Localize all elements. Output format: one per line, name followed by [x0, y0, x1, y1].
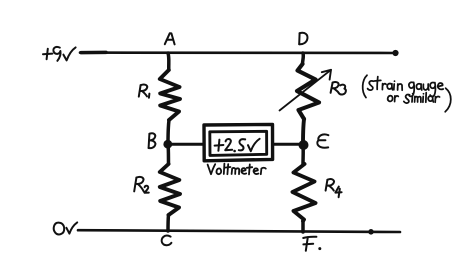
label R4 — [326, 179, 342, 197]
node A label — [165, 33, 175, 44]
node E label — [317, 134, 328, 147]
wire bottom rail 0V — [78, 230, 400, 232]
wire B to voltmeter — [172, 143, 204, 146]
junction dot bottom rail — [368, 229, 374, 235]
label 0v — [54, 222, 77, 234]
label R2 — [134, 177, 149, 193]
node B dot — [163, 140, 172, 149]
node F label — [303, 237, 316, 251]
wire A to R1 — [166, 53, 170, 70]
voltmeter reading +2.5V — [215, 139, 260, 153]
wire top rail +9V — [80, 51, 396, 54]
label R3 — [331, 82, 346, 95]
resistor R2 — [160, 164, 180, 215]
wire voltmeter to E — [273, 143, 300, 146]
node C label — [162, 236, 172, 246]
arrow through R3 (variable) — [280, 70, 332, 111]
label R1 — [139, 84, 150, 97]
label Voltmeter — [208, 164, 266, 175]
node B label — [149, 133, 156, 148]
wire E to R4 — [301, 144, 305, 164]
voltmeter U1 inner box — [210, 131, 267, 155]
node D label — [299, 33, 307, 44]
resistor R4 — [293, 164, 316, 221]
resistor R3 strain gauge — [297, 64, 319, 119]
label (strain gauge — [363, 75, 444, 97]
wire R3 to E — [303, 119, 304, 144]
wire R2 to C — [166, 215, 170, 231]
node F period — [318, 247, 321, 250]
wire R1 to B — [168, 120, 169, 144]
voltmeter U1 outer box — [204, 124, 273, 160]
wire top rail start bulge — [81, 51, 106, 55]
label or similar) — [388, 88, 451, 112]
node E dot — [299, 140, 309, 150]
wire B to R2 — [166, 144, 170, 164]
resistor R1 — [160, 70, 180, 120]
wire R4 to F — [301, 221, 305, 232]
node top-right end dot — [392, 50, 398, 56]
label +9v — [43, 47, 76, 61]
wire D to R3 — [301, 53, 305, 64]
